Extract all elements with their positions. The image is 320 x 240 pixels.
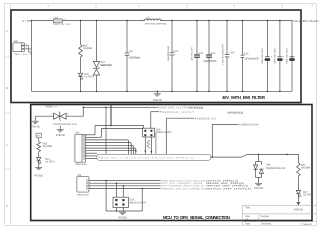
svg-text:MCU_GPI_1_IO_CH_DT/SE_DR_CH-DR: MCU_GPI_1_IO_CH_DT/SE_DR_CH-DRT_8PIN[3:8… (101, 156, 193, 159)
svg-text:3k01MB: 3k01MB (43, 145, 53, 148)
svg-text:PGND: PGND (153, 98, 162, 102)
svg-text:2: 2 (161, 18, 162, 21)
svg-text:LG R971: LG R971 (45, 161, 56, 164)
svg-text:J04: J04 (77, 174, 82, 177)
svg-text:SBRIDGE_VREF_[PROP][A]: SBRIDGE_VREF_[PROP][A] (206, 187, 251, 190)
svg-text:AOUTCHA_VREF[3:0]: AOUTCHA_VREF[3:0] (206, 179, 238, 182)
svg-text:Size: Size (245, 215, 250, 218)
svg-text:Sheet of: Sheet of (303, 223, 312, 226)
svg-text:SBRIDGE_nFAULT: SBRIDGE_nFAULT (162, 111, 194, 114)
svg-text:Date: Date (245, 223, 251, 226)
svg-text:C03: C03 (199, 52, 204, 55)
svg-text:PGND: PGND (118, 215, 127, 219)
svg-text:D: D (6, 204, 8, 208)
svg-text:DRV8353[2]: DRV8353[2] (228, 112, 244, 115)
svg-text:1uF 10% 100V: 1uF 10% 100V (190, 47, 193, 61)
svg-text:C06: C06 (244, 52, 249, 55)
svg-text:VIN: VIN (22, 19, 29, 23)
svg-text:SBRIDGE_VREF_[PROP][A]: SBRIDGE_VREF_[PROP][A] (206, 185, 248, 188)
svg-text:L01: L01 (146, 17, 151, 20)
svg-text:1: 1 (50, 18, 51, 21)
svg-text:C02: C02 (174, 50, 179, 53)
svg-text:MCU_TO_DRV_SIGNAL_CONNECTION: MCU_TO_DRV_SIGNAL_CONNECTION (163, 215, 230, 220)
svg-text:2.2uF/2225 1kVdc: 2.2uF/2225 1kVdc (129, 56, 141, 59)
svg-text:1.0uF/3kV/2220/X7R: 1.0uF/3kV/2220/X7R (222, 44, 225, 65)
svg-text:GPI_SCK_CURRENT_SENSE: GPI_SCK_CURRENT_SENSE (163, 182, 204, 185)
svg-text:SBRIDGE_VREF_[PROP][A]: SBRIDGE_VREF_[PROP][A] (206, 182, 244, 185)
svg-text:MCU_INDUCTIVE_LOAD_AOUTC[3]: MCU_INDUCTIVE_LOAD_AOUTC[3] (163, 179, 205, 182)
svg-text:J03: J03 (75, 132, 80, 135)
svg-text:PGND: PGND (294, 208, 303, 212)
svg-text:0.22uF/2220 CPX: 0.22uF/2220 CPX (204, 60, 217, 63)
svg-text:DRV8353[2]: DRV8353[2] (189, 106, 204, 109)
svg-text:GPI_SBRIDGE_PROP_ASM_IN: GPI_SBRIDGE_PROP_ASM_IN (163, 185, 204, 188)
svg-text:1uF 1kV 2220 X7R: 1uF 1kV 2220 X7R (245, 57, 259, 60)
svg-text:PESD5V0L8A,115: PESD5V0L8A,115 (266, 167, 286, 170)
svg-text:SBRIDGE_nSLEEP: SBRIDGE_nSLEEP (160, 106, 188, 109)
svg-text:J02: J02 (14, 40, 19, 43)
svg-text:48V_WITH_EMI_FILTER: 48V_WITH_EMI_FILTER (222, 95, 266, 100)
svg-text:C: C (6, 143, 8, 147)
svg-text:TB02_5HL-W: TB02_5HL-W (14, 53, 33, 56)
svg-text:CM02TN-TR2: CM02TN-TR2 (53, 23, 71, 26)
svg-text:PGND: PGND (56, 133, 65, 137)
svg-text:C01: C01 (129, 50, 134, 53)
svg-text:SBRIDGE_DIR: SBRIDGE_DIR (197, 117, 216, 120)
svg-text:TB03A-JL04: TB03A-JL04 (77, 193, 89, 196)
svg-text:4k02MB: 4k02MB (301, 167, 311, 170)
svg-text:SMBJ40CA-E3_52: SMBJ40CA-E3_52 (100, 64, 113, 67)
svg-text:MPD7020-103MAOBL: MPD7020-103MAOBL (145, 22, 167, 25)
svg-text:10/6/2024: 10/6/2024 (261, 223, 272, 226)
svg-text:Title: Title (245, 207, 250, 210)
svg-text:TB02A-JL05: TB02A-JL05 (75, 163, 87, 166)
svg-text:SMAJ/LG R971: SMAJ/LG R971 (130, 201, 148, 204)
svg-text:48V_BATTERY_COM_DRV: 48V_BATTERY_COM_DRV (295, 20, 319, 23)
svg-text:2.2uF/2225 1kVdc: 2.2uF/2225 1kVdc (167, 45, 170, 61)
svg-text:PGB: PGB (46, 106, 52, 109)
svg-text:1: 1 (142, 18, 143, 21)
svg-text:PGND: PGND (31, 125, 40, 129)
svg-text:L02: L02 (54, 16, 59, 19)
svg-text:LG R971: LG R971 (84, 75, 95, 78)
svg-text:PESD5V0L8A,115: PESD5V0L8A,115 (53, 123, 77, 126)
svg-text:Number: Number (261, 215, 269, 218)
svg-text:68uF 100V 16x17: 68uF 100V 16x17 (274, 47, 277, 64)
svg-text:SBRIDGE_PWM: SBRIDGE_PWM (241, 124, 258, 127)
svg-text:C05: C05 (230, 52, 235, 55)
svg-text:PGND: PGND (254, 186, 263, 190)
svg-text:SMAJ/LG R971: SMAJ/LG R971 (156, 131, 173, 134)
svg-text:PGND: PGND (34, 174, 43, 178)
svg-text:SBRIDGE_DAC_OUT_CONNECTOR: SBRIDGE_DAC_OUT_CONNECTOR (163, 187, 206, 190)
svg-text:LG R971: LG R971 (303, 194, 314, 197)
svg-text:2: 2 (65, 18, 66, 21)
svg-text:68uF 100V 16x17: 68uF 100V 16x17 (261, 47, 264, 64)
svg-text:68uF 100V 16x17: 68uF 100V 16x17 (286, 47, 289, 64)
svg-text:10k4MB: 10k4MB (83, 47, 93, 50)
svg-text:B: B (6, 86, 8, 90)
svg-text:A: A (6, 29, 8, 33)
svg-text:C04: C04 (211, 52, 216, 55)
